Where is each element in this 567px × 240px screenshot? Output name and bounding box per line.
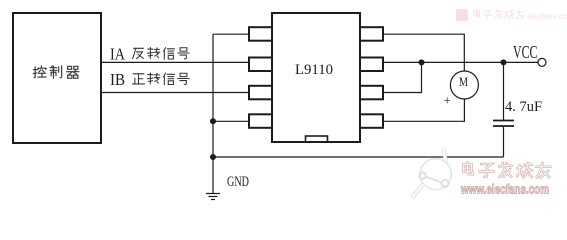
wire IA from controller to pin 2: [101, 61, 249, 63]
pin 6: [360, 58, 383, 72]
svg-text:elecfans.com: elecfans.com: [527, 12, 567, 21]
wire pin 6 to VCC terminal: [383, 61, 538, 63]
wire VCC rail to capacitor: [503, 62, 505, 120]
wire IB from controller to pin 3: [101, 92, 249, 94]
pin 4: [249, 114, 272, 128]
junction dot bus/rail: [210, 154, 216, 160]
VCC terminal circle: [538, 58, 546, 66]
svg-text:IB: IB: [110, 70, 125, 89]
pin 2: [249, 58, 272, 72]
ground symbol: [206, 157, 220, 200]
svg-text:M: M: [459, 74, 468, 89]
pin 3: [249, 86, 272, 100]
junction dot VCC/capacitor: [501, 59, 507, 65]
svg-text:GND: GND: [227, 174, 249, 190]
wire motor bottom to pin 8: [383, 99, 464, 121]
controller label 控制器: [33, 66, 79, 78]
wire branch to pin 7: [383, 62, 422, 92]
IC U1 L9110 body: [272, 13, 360, 142]
bottom ground rail: [213, 156, 504, 158]
svg-text:4. 7uF: 4. 7uF: [505, 99, 542, 115]
IC notch mark: [306, 136, 328, 142]
motor M: [450, 71, 478, 99]
junction dot pin6/pin7 branch: [419, 59, 425, 65]
svg-text:www.elecfans.com: www.elecfans.com: [460, 183, 549, 197]
pin 7: [360, 86, 383, 100]
junction dot bus/pin4: [210, 118, 216, 124]
svg-text:IA: IA: [110, 45, 126, 64]
wire bus to pin 4: [213, 120, 249, 122]
label IB 正转信号: [110, 70, 189, 89]
svg-text:L9110: L9110: [295, 62, 333, 78]
wire capacitor to ground rail: [503, 126, 505, 157]
svg-text:+: +: [444, 93, 451, 108]
pin 8: [360, 114, 383, 128]
wire bus to pin 1: [213, 33, 249, 35]
GND bus vertical wire: [212, 34, 214, 157]
pin 5: [360, 27, 383, 41]
controller box: [13, 13, 101, 143]
watermark bottom right logo and text: [412, 148, 550, 198]
pin 1: [249, 27, 272, 41]
watermark top right: [456, 9, 567, 21]
label IA 反转信号: [110, 45, 189, 64]
svg-text:VCC: VCC: [513, 42, 538, 62]
capacitor C1 plates: [493, 120, 514, 122]
wire pin 5 to motor top: [383, 34, 464, 71]
